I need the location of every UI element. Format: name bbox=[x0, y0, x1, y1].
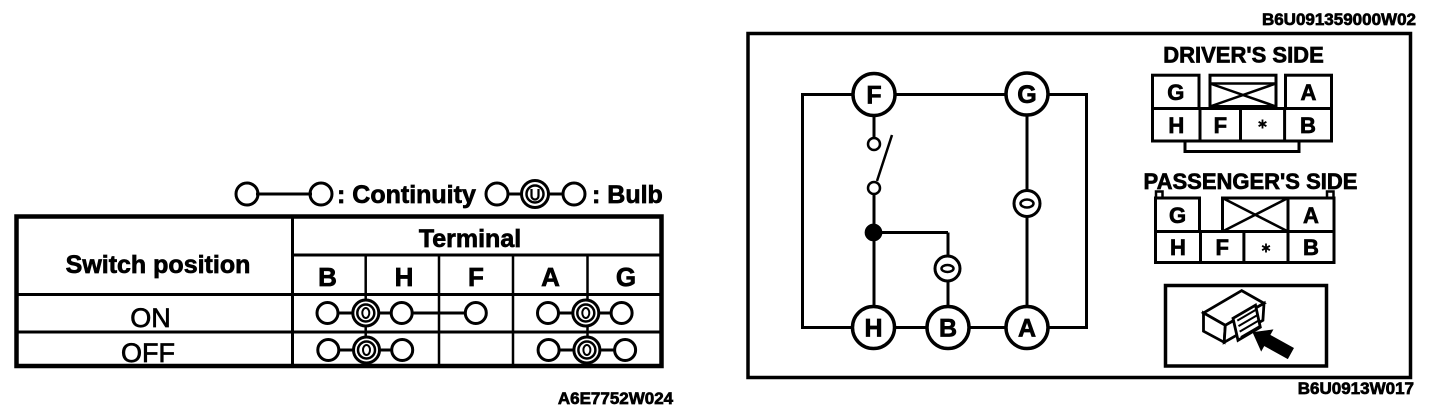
svg-text:A: A bbox=[1303, 203, 1319, 228]
svg-text:H: H bbox=[395, 262, 414, 292]
svg-text:F: F bbox=[468, 262, 484, 292]
svg-text:F: F bbox=[866, 82, 881, 110]
svg-text:B: B bbox=[1303, 235, 1319, 260]
svg-text:: Bulb: : Bulb bbox=[592, 181, 663, 209]
svg-text:Terminal: Terminal bbox=[419, 225, 521, 253]
svg-text:PASSENGER'S SIDE: PASSENGER'S SIDE bbox=[1144, 169, 1358, 194]
svg-text:H: H bbox=[864, 315, 882, 343]
svg-text:H: H bbox=[1168, 113, 1184, 138]
svg-text:G: G bbox=[1167, 80, 1184, 105]
svg-text:A6E7752W024: A6E7752W024 bbox=[558, 389, 674, 408]
svg-text:B: B bbox=[939, 315, 957, 343]
svg-text:Switch position: Switch position bbox=[66, 251, 251, 279]
svg-text:F: F bbox=[1214, 113, 1227, 138]
svg-text:H: H bbox=[1170, 235, 1186, 260]
svg-text:B: B bbox=[1300, 113, 1316, 138]
svg-text:A: A bbox=[1018, 315, 1036, 343]
svg-text:G: G bbox=[616, 262, 636, 292]
svg-text:A: A bbox=[541, 262, 560, 292]
svg-text:G: G bbox=[1169, 203, 1186, 228]
svg-text:: Continuity: : Continuity bbox=[337, 181, 476, 209]
svg-text:B: B bbox=[318, 262, 337, 292]
svg-text:DRIVER'S SIDE: DRIVER'S SIDE bbox=[1163, 43, 1324, 68]
svg-text:OFF: OFF bbox=[121, 338, 175, 368]
svg-text:ON: ON bbox=[130, 303, 171, 333]
svg-text:A: A bbox=[1301, 80, 1317, 105]
svg-text:B6U091359000W02: B6U091359000W02 bbox=[1262, 10, 1416, 29]
svg-text:G: G bbox=[1017, 81, 1036, 109]
svg-text:B6U0913W017: B6U0913W017 bbox=[1298, 379, 1414, 398]
svg-text:F: F bbox=[1215, 235, 1228, 260]
